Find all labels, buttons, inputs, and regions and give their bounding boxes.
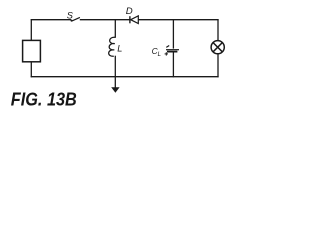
- wire: top rail right segment: [138, 19, 218, 21]
- wire: left branch lower: [30, 62, 32, 78]
- capacitor CL bottom plate: [167, 51, 177, 53]
- svg-text:CL: CL: [152, 46, 161, 58]
- inductor L coil: [109, 37, 116, 56]
- capacitor CL polarity tick: [166, 46, 169, 48]
- capacitor CL top plate: [166, 49, 179, 51]
- svg-text:FIG. 13B: FIG. 13B: [11, 89, 77, 109]
- svg-text:L: L: [117, 44, 122, 54]
- wire: capacitor branch upper: [172, 19, 174, 48]
- wire: lamp branch lower: [217, 54, 219, 78]
- wire: top rail middle segment: [80, 19, 130, 21]
- wire: bottom rail: [31, 76, 219, 78]
- wire: capacitor branch lower: [172, 52, 174, 77]
- svg-text:D: D: [126, 6, 133, 17]
- switch S contact dot: [71, 20, 73, 22]
- switch S lever: [71, 17, 80, 21]
- svg-text:S: S: [67, 11, 74, 21]
- source block: [23, 40, 41, 61]
- wire: top rail left segment: [31, 19, 71, 21]
- lamp (load): [211, 41, 224, 54]
- capacitor CL plus sign: [165, 52, 168, 55]
- diode D triangle: [131, 16, 139, 24]
- diode D cathode bar: [129, 16, 131, 23]
- wire: inductor branch lower: [114, 56, 116, 77]
- wire: lamp branch upper: [217, 19, 219, 41]
- wire: left branch upper: [30, 19, 32, 40]
- ground arrow: [114, 77, 116, 89]
- wire: inductor branch upper: [114, 19, 116, 38]
